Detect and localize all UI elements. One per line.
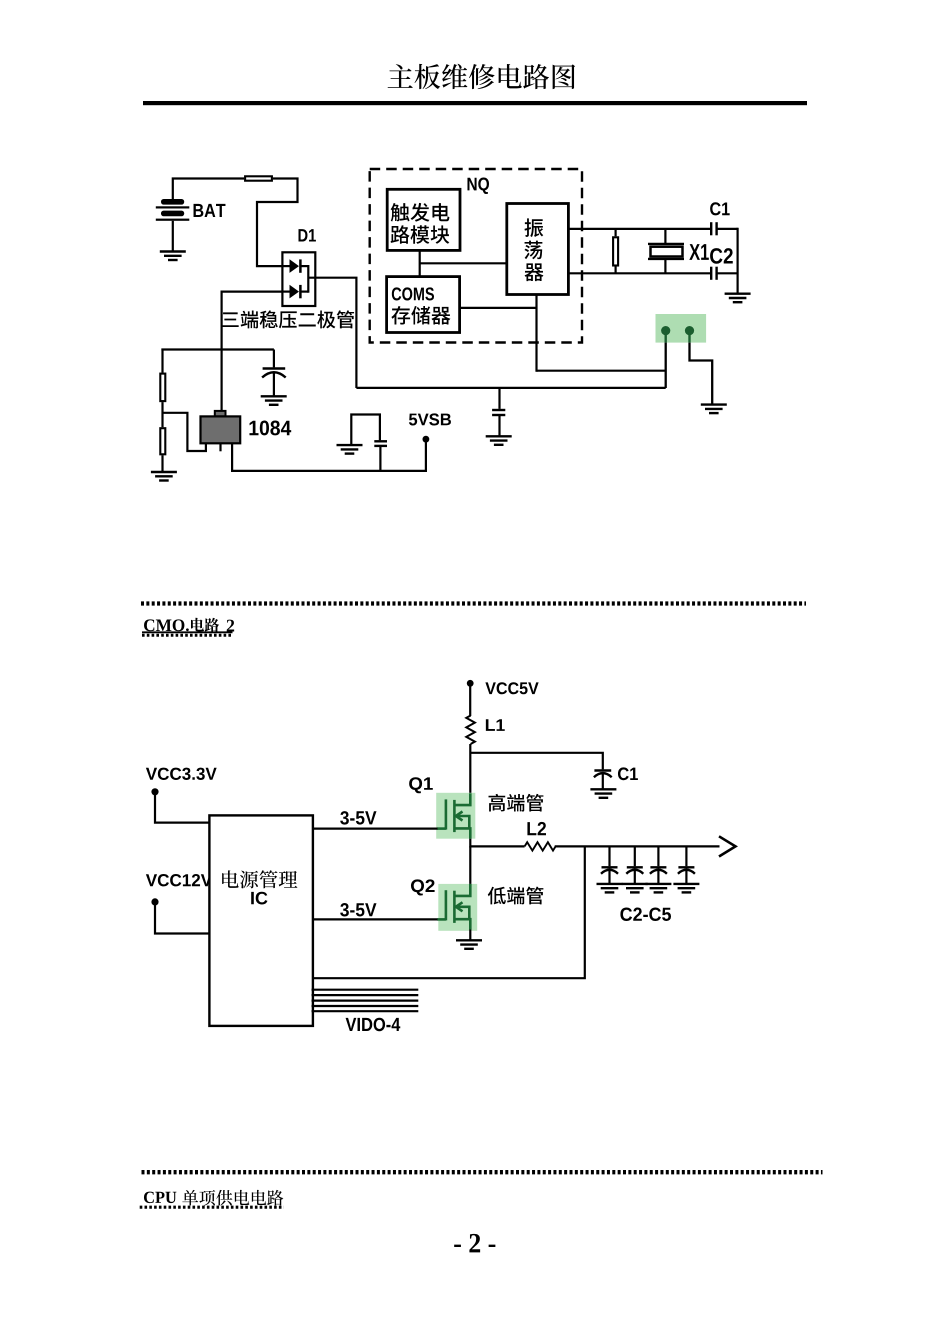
wire resistor to D1 upper input [257,179,298,267]
wire VID bus line [312,1005,419,1007]
capacitor C5 [678,846,695,884]
node VCC5V [467,680,474,687]
wire COMS to oscillator foot [460,307,537,309]
wire oscillator foot down [535,295,537,372]
regulator 1084 [201,411,241,451]
wire node rail upper [537,370,666,372]
wire pad pin2 to ground [688,331,690,343]
diode D1b [282,285,308,299]
ground (divider) [151,472,177,481]
arrowhead output [719,836,736,856]
wire oscillator out top [568,228,711,230]
wire node rail lower [356,387,665,389]
label COMS [392,287,434,300]
label VCC3.3V [146,768,217,780]
ground hook (5VSB filter) [351,415,380,445]
battery BAT [156,199,190,252]
wire VID bus line [312,989,419,991]
capacitor (rail bypass) [492,388,505,436]
block 振荡器 oscillator [507,204,569,295]
resistor (divider lower) [160,428,165,454]
separator dotted 1 [141,601,806,605]
label 电源管理 [222,870,297,888]
wire pad pin1 [665,331,667,343]
wire VID bus line [312,999,419,1001]
label 高端管 [489,794,544,812]
dashed module box NQ [370,169,582,343]
ground (C1/C2) [725,294,751,303]
wire gate Q2 from IC [313,918,438,920]
page number [454,1234,495,1253]
wire D1 output to node [308,278,356,388]
wire to C1 branch [470,753,603,770]
wire battery top to resistor [173,179,244,200]
capacitor C3 [626,846,643,884]
wire VCC12V to IC [155,902,209,934]
ground (C2) [597,884,623,893]
wire Q1 source to output node [469,839,471,848]
wire Q1/Q2 node to Q2 drain [469,846,471,884]
title rule [143,101,807,105]
wire to divider resistors [161,349,163,373]
transistor Q2 highlight [438,884,477,931]
wire C1/C2 to ground [736,228,738,294]
label L1 [486,719,505,731]
resistor (top, horizontal) [245,176,272,180]
wire 1084 out to 5VSB rail [232,439,426,471]
crystal X1 [648,229,684,273]
wire VID bus line [312,1010,419,1012]
ground (C3) [622,884,648,893]
label 低端管 [488,887,544,905]
wire lower resistor to ground [161,455,163,472]
heading CMO.电路 2 [144,619,189,631]
heading underline dotted [142,634,233,637]
capacitor C1 (output filter) [594,771,612,790]
capacitor C4 [650,846,667,884]
heading 2 underline dotted [140,1206,284,1209]
ground (battery) [160,252,186,261]
label NQ [467,178,489,195]
label 振荡器 [524,218,543,237]
label 触发电路模块 [391,203,450,222]
wire Q2 source to ground [469,930,471,941]
wire between divider resistors [161,402,163,427]
label 存储器 [391,306,450,325]
label IC [251,892,267,905]
IC block 电源管理IC [209,815,313,1026]
label 3-5V (upper) [340,811,376,825]
capacitor C2 [711,267,737,280]
label L2 [527,822,546,835]
label VIDO-4 [346,1018,401,1031]
diode pack D1 box [282,252,315,306]
ground (C1) [590,789,616,798]
wire oscillator out bottom [568,272,711,274]
diode D1a [282,259,308,273]
node VCC3.3V [151,788,158,795]
ground (1084 output cap) [261,396,287,405]
inductor L2 (horizontal zigzag) [525,842,556,850]
wire divider tap to 1084 pin [163,413,206,451]
transistor Q1 highlight [436,793,475,839]
transistor Q1 (MOSFET) [437,793,470,839]
label 三端稳压二极管 [222,310,354,328]
transistor Q2 (MOSFET) [437,884,470,930]
capacitor (1084 output, polarized) [262,350,286,397]
ground (C5) [673,884,699,893]
label D1 [299,229,316,241]
ground (C4) [645,884,671,893]
wire D1 lower input [222,292,283,411]
ground (5VSB filter) [337,445,363,454]
wire D1 output junction [307,265,309,293]
label Q1 [409,777,433,793]
label C2 [710,248,733,264]
capacitor C1 [711,222,737,235]
label VCC5V [485,682,538,694]
wire gate Q1 from IC [313,827,438,829]
capacitor (5VSB filter) [374,441,387,471]
heading CPU 单项供电电路 [144,1192,176,1204]
block 触发电路模块 [387,189,460,250]
resistor (divider upper) [160,374,165,402]
label VCC12V [146,874,212,886]
label X1 [689,244,709,260]
ground (Q2) [456,940,482,949]
wire feedback [313,846,585,978]
output rail with L2 [470,845,524,847]
inductor L1 (vertical zigzag) [466,716,475,745]
wire VID bus line [312,994,419,996]
heading underline solid [142,631,233,633]
wire trigger/COMS to oscillator [420,262,507,264]
label BAT [194,204,226,217]
label C1 [618,767,638,780]
label Q2 [411,879,435,895]
label 3-5V (lower) [340,903,376,917]
block COMS 存储器 [387,277,460,333]
page title 主板维修电路图 [388,64,576,89]
ground (rail bypass) [486,436,512,445]
wire VCC3.3V to IC [155,792,209,823]
jumper pad (green) [656,314,707,343]
label 1084 [249,421,291,436]
wire VCC5V to L1 [469,683,471,716]
label C2-C5 [620,908,671,922]
ground (jumper pad) [701,405,727,414]
capacitor C2 [601,846,618,884]
separator dotted 2 [142,1170,823,1174]
resistor (oscillator feedback, vertical) [613,229,618,273]
node 5VSB [423,436,430,443]
label C1 [710,202,730,215]
wire L1 to Q1 drain [469,744,471,794]
node VCC12V [151,898,158,905]
label 5VSB [409,413,451,425]
wire junction horizontal above 1084 [161,348,274,350]
wire trigger to COMS [419,250,421,276]
